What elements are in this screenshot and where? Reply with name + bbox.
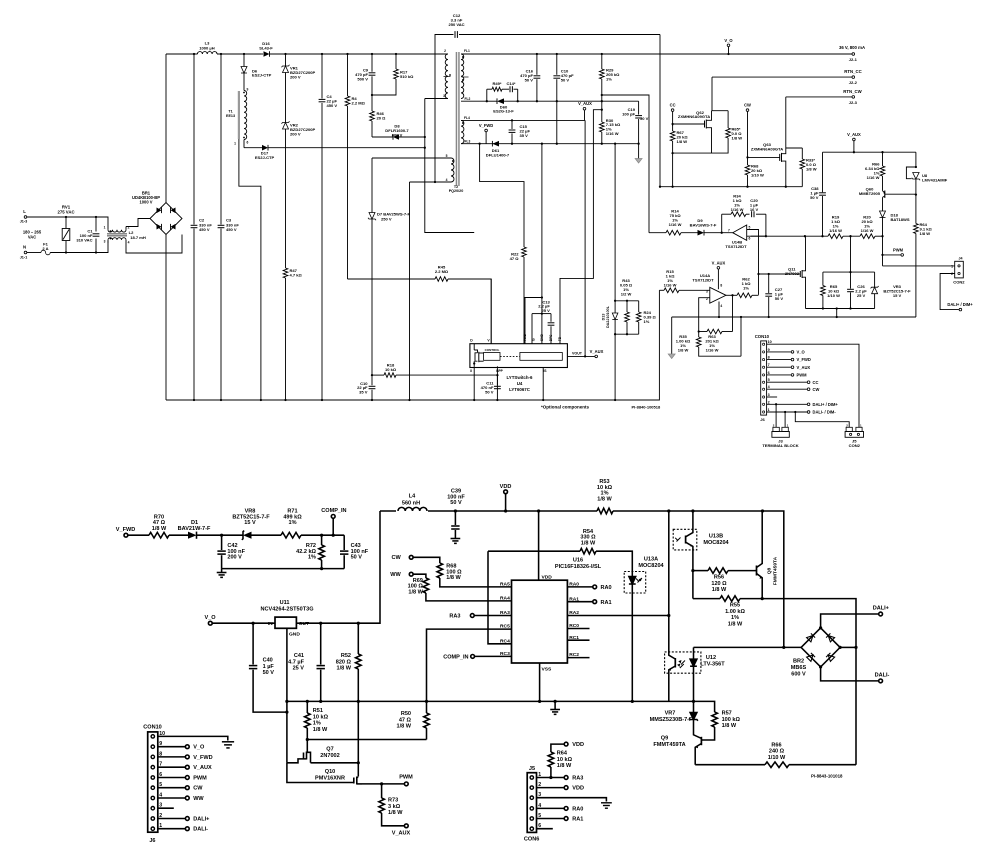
terminal WW input [390,572,426,578]
svg-text:U11: U11 [280,600,290,606]
svg-text:600 V: 600 V [392,132,403,137]
terminal N J1-1 [20,245,28,260]
svg-text:RA1: RA1 [572,817,583,823]
transistor Q9 FMMT459TA [653,735,703,764]
pin wires U4 top [524,298,526,344]
svg-text:RA3: RA3 [449,613,460,619]
svg-text:8: 8 [720,283,722,287]
svg-text:R56: R56 [714,575,724,581]
svg-text:DALI+: DALI+ [193,817,210,823]
svg-text:DALI-: DALI- [875,672,890,678]
junction dots FL3 line [478,143,639,145]
common-mode choke L2 [104,225,146,244]
terminal RA3 input [449,613,511,619]
svg-text:LYT6067C: LYT6067C [509,387,531,392]
wire U13B collector [692,511,694,529]
svg-text:FMMT459TA: FMMT459TA [653,742,685,748]
wire sense network to bus [614,334,616,400]
capacitor C10 470pF [553,54,574,101]
svg-text:1/16 W: 1/16 W [669,222,682,227]
zener VR7 MMSZ5230B-7-F [650,701,701,738]
junction dot Q8 collector [761,509,764,512]
svg-text:1/16 W: 1/16 W [867,175,880,180]
svg-text:CON10: CON10 [755,334,770,339]
capacitor C26 [847,236,867,308]
svg-text:1000 V: 1000 V [140,200,153,205]
terminal V_AUX J6 [158,765,212,771]
svg-text:RA1: RA1 [601,600,612,606]
svg-text:RA0: RA0 [572,807,583,813]
wire R55 line [693,598,720,600]
svg-text:R52: R52 [341,653,351,659]
svg-text:35 V: 35 V [359,390,368,395]
resistor R56 [693,568,755,593]
svg-text:CW: CW [193,786,203,792]
svg-text:450 V: 450 V [199,227,210,232]
junction dots return line [659,186,787,188]
svg-text:V_FWD: V_FWD [479,123,493,128]
svg-text:3: 3 [706,289,708,293]
wire DALI- to terminal block [784,412,786,427]
svg-text:CON10: CON10 [143,724,162,730]
svg-text:V_O: V_O [724,38,733,43]
svg-text:J6: J6 [149,838,155,844]
svg-text:MMSZ5230B-7-F: MMSZ5230B-7-F [650,717,693,723]
svg-text:510 kΩ: 510 kΩ [400,74,414,79]
capacitor C10 bulk 22uF [357,375,375,400]
svg-text:1/8 W: 1/8 W [313,727,328,733]
svg-text:1/16 W: 1/16 W [606,131,619,136]
svg-text:25 V: 25 V [541,308,550,313]
resistor R19 [828,214,860,238]
svg-text:1/16 W: 1/16 W [731,207,744,212]
svg-text:PI-8843-101018: PI-8843-101018 [811,773,843,778]
svg-text:V_AUX: V_AUX [797,365,811,370]
resistor R64 10k [548,751,572,780]
terminal V_FWD [479,123,493,144]
svg-text:1/8 W: 1/8 W [728,622,743,628]
diode D16 SL43-F [259,41,448,57]
junction dots input [65,216,97,254]
wire bridge right to R55 net [840,646,856,648]
svg-text:BAV16WS-7-F: BAV16WS-7-F [690,223,717,228]
svg-text:CW: CW [391,555,401,561]
junction dot C15 top [511,119,513,121]
svg-text:275 VAC: 275 VAC [57,209,74,214]
svg-text:50 V: 50 V [450,500,462,506]
svg-text:FL2: FL2 [465,97,471,101]
terminal PWM J6 [158,776,207,782]
svg-text:J1-1: J1-1 [20,255,28,259]
svg-text:4: 4 [446,178,448,182]
svg-text:R66: R66 [771,742,781,748]
junction dots bottom rail [306,700,695,703]
wire V_FWD node to R22 [480,144,524,247]
svg-text:FMMT459TA: FMMT459TA [773,556,779,585]
svg-text:1%: 1% [313,721,321,727]
svg-text:25 V: 25 V [293,666,305,672]
capacitor C13 [538,299,554,343]
terminal RA1 J5 [537,817,584,823]
svg-text:1%: 1% [606,77,612,82]
wire R65b C26 VR3 rails [806,308,875,310]
svg-text:47 Ω: 47 Ω [399,717,412,723]
svg-text:PWM: PWM [399,775,413,781]
junction dot bridge [854,646,857,649]
svg-text:V_FWD: V_FWD [116,527,135,533]
svg-text:16 V: 16 V [750,207,759,212]
wire HV bus left [166,53,198,55]
svg-text:IS: IS [532,338,536,341]
svg-text:V_AUX: V_AUX [392,830,411,836]
svg-text:R55: R55 [730,603,740,609]
wire R22 stub [524,297,542,299]
svg-text:1/8 W: 1/8 W [408,589,423,595]
svg-text:8: 8 [768,356,770,360]
svg-text:V_AUX: V_AUX [590,349,604,354]
wire Q11 gate line [759,273,801,275]
resistor R54 [488,529,632,577]
svg-text:36 V, 800 mA: 36 V, 800 mA [839,45,865,50]
svg-text:820 Ω: 820 Ω [336,659,352,665]
resistor R51 [305,701,329,741]
svg-text:CW: CW [744,103,751,108]
svg-text:50 V: 50 V [775,296,784,301]
svg-text:RC3: RC3 [500,651,510,657]
svg-text:2.2 MΩ: 2.2 MΩ [435,269,449,274]
svg-text:CW: CW [813,387,820,392]
connector J6 CON10 bottom [143,724,165,844]
junction dot U13B collector [691,509,694,512]
svg-text:C41: C41 [294,653,304,659]
wire BR1 minus to bottom bus [165,235,167,401]
zener VR2 BZD27C200P [282,121,316,268]
svg-text:VDD: VDD [542,574,553,580]
svg-text:RC4: RC4 [500,638,510,644]
svg-text:1/8 W: 1/8 W [446,575,461,581]
svg-text:4.7 µF: 4.7 µF [288,659,304,665]
MOSFET Q7 2N7002 [287,747,340,763]
diode D60 ES2G-13-F [487,98,639,113]
transformer T1 EE13 bias winding [226,87,261,400]
junction dots gate line [757,273,770,275]
svg-text:1%: 1% [288,520,296,526]
resistor R64 9.1k [914,195,933,317]
wire R29 junction to R14 [602,95,649,233]
svg-text:CON2: CON2 [953,279,965,284]
svg-text:EE13: EE13 [226,114,235,118]
svg-text:VDD: VDD [572,786,584,792]
terminal V_O bottom [204,615,275,625]
connector J6 CON10 top [755,334,772,422]
terminal CC [670,103,676,126]
svg-text:7: 7 [728,228,730,232]
resistor R73 [379,784,411,836]
svg-text:RTN_CW: RTN_CW [843,89,862,94]
svg-text:10 kΩ: 10 kΩ [313,714,329,720]
svg-text:1/8 W: 1/8 W [806,166,817,171]
resistor R72 [296,534,324,569]
terminal block J3 [762,423,798,448]
current sense network rails [614,300,639,336]
wire R53 net [763,511,784,647]
svg-text:PI-8840-100518: PI-8840-100518 [632,404,661,409]
terminal V_FWD CON10 [767,357,811,362]
svg-text:10 kΩ: 10 kΩ [557,757,573,763]
capacitor C12 snubber [434,13,660,183]
svg-text:GND: GND [289,631,300,637]
terminal V_O J6 [158,745,205,751]
svg-text:BR2: BR2 [793,659,804,665]
svg-text:Q8: Q8 [767,567,773,574]
wire clamp to ground line [836,309,838,318]
MOSFET Q63 ZXMHN6A09GTA [746,142,785,187]
resistor R46 [370,95,386,137]
inductor L4 [396,494,428,516]
svg-text:25 V: 25 V [857,293,866,298]
resistor R45 [348,264,492,343]
svg-text:N: N [23,245,26,250]
MOSFET Q62 ZXMHN6A09GTA [671,110,711,153]
svg-text:1/8 W: 1/8 W [337,666,352,672]
svg-text:1000 µH: 1000 µH [199,45,214,50]
VOUT wire and terminal V_AUX [567,349,603,358]
svg-text:CC: CC [670,103,676,108]
IC U11 NCV4264-2ST50T3G [260,600,313,638]
terminal RA3 J5 [537,776,584,782]
resistor R50 [397,701,430,739]
svg-text:V_O: V_O [797,350,806,355]
svg-text:6: 6 [768,371,770,375]
diode D61 DFLU1400-7 [486,141,510,158]
terminal RTN_CC J2-2 [712,69,862,85]
terminal CW CON10 [767,387,820,392]
op-amp U14B TSX712IDT [725,225,765,295]
resistor R17 [371,54,414,96]
wire BR1 plus to HV bus [165,54,167,203]
svg-text:50 V: 50 V [525,77,534,82]
svg-text:9: 9 [247,87,249,91]
svg-text:50 V: 50 V [561,77,570,82]
svg-text:RTN_CC: RTN_CC [844,69,861,74]
wire DALI+ to terminal block [775,404,777,427]
junction dots R29 divider [601,94,603,111]
svg-text:ZXMHN6A09GTA: ZXMHN6A09GTA [678,114,710,119]
svg-text:ES2J-CTP: ES2J-CTP [252,73,272,78]
svg-text:3: 3 [104,240,106,244]
svg-text:U12: U12 [706,655,716,661]
svg-text:PQ20/20: PQ20/20 [449,189,464,193]
resistor R29 [600,54,621,122]
junction dot RA2 pullup [667,509,670,512]
capacitor C42 [217,534,245,569]
svg-text:R50: R50 [401,711,411,717]
svg-text:1/8 W: 1/8 W [722,723,737,729]
svg-text:D13: D13 [601,314,605,321]
connector J5 CON2 bottom [845,423,863,448]
svg-text:V_O: V_O [193,745,205,751]
svg-text:2: 2 [768,400,770,404]
svg-text:1: 1 [951,264,953,268]
resistor R71 [281,509,344,539]
svg-text:50 V: 50 V [263,670,275,676]
stub RC0 [567,628,589,630]
svg-text:RA5: RA5 [500,582,510,588]
wire R53 to RA2 pullup [668,511,670,616]
wire RTN_CC to Q62 drain [711,77,713,111]
svg-text:WW: WW [193,796,204,802]
svg-text:250 VAC: 250 VAC [448,22,464,27]
svg-text:VOUT: VOUT [572,352,583,356]
svg-text:MOC8204: MOC8204 [703,540,729,546]
svg-text:DFLU1400-7: DFLU1400-7 [486,153,510,158]
svg-text:1/8 W: 1/8 W [678,348,689,353]
svg-text:1%: 1% [308,555,316,561]
transformer T2 core [456,52,460,186]
capacitor C40 [249,622,287,712]
svg-text:35 V: 35 V [520,133,529,138]
svg-text:1/8 W: 1/8 W [152,526,167,532]
terminal V_FWD J6 [158,755,213,761]
terminal DALI+ right [821,606,890,628]
svg-text:450 V: 450 V [327,103,338,108]
svg-text:47 Ω: 47 Ω [510,256,520,261]
resistor R66 6.34k [865,152,885,190]
svg-text:1/8 W: 1/8 W [597,496,612,502]
wire U11 gnd [286,628,288,763]
svg-text:1/8 W: 1/8 W [397,724,412,730]
wire L line top [27,217,108,227]
terminal PWM bottom [380,775,413,786]
svg-text:1/2 W: 1/2 W [621,291,632,296]
feedback R34 and C20 [722,193,767,237]
junction dots control line [804,235,824,237]
capacitor C15 [509,120,531,143]
svg-text:200 V: 200 V [290,74,301,79]
wire bottom bus [166,290,659,400]
svg-text:1/8 W: 1/8 W [388,810,403,816]
transistor Q60 MMBT2905 PNP [859,186,916,211]
op-amp U14A TSX712IDT [692,273,726,308]
svg-text:RA0: RA0 [601,585,612,591]
terminal RA0 out [567,585,611,591]
resistor R66 240 [695,742,856,767]
bridge rectifier BR1 UD4KB100-BP [132,190,182,234]
junction dot GND line [541,296,543,298]
svg-text:1: 1 [104,225,106,229]
svg-text:LMV431AIMF: LMV431AIMF [922,177,948,182]
diode D17 ES2J-CTP [244,145,426,160]
svg-text:3: 3 [768,393,770,397]
svg-text:5: 5 [749,226,751,230]
transistor Q8 FMMT459TA [755,511,779,599]
svg-text:1/8 W: 1/8 W [712,587,727,593]
diode D8 DFLR1600-7 [372,124,426,140]
svg-text:240 Ω: 240 Ω [769,749,785,755]
svg-text:V_AUX: V_AUX [193,765,212,771]
wire R35 ground return [740,317,742,356]
svg-text:U13B: U13B [709,534,723,540]
svg-text:ES2J-CTP: ES2J-CTP [255,155,275,160]
wire L2 to BR1 ac2 [126,235,182,254]
svg-text:1/8 W: 1/8 W [557,763,572,769]
junction dots clamp rails [822,271,852,310]
wire output rail 36V [461,53,853,55]
svg-text:3: 3 [443,94,445,98]
svg-text:1/16 W: 1/16 W [664,282,677,287]
svg-text:1%: 1% [644,319,650,324]
svg-text:J2-1: J2-1 [849,57,858,62]
wire R54 to RC4 [488,551,512,644]
svg-text:1%: 1% [743,286,749,291]
wire U12 LED anode to bridge [694,646,802,648]
resistor R15 [664,269,710,293]
terminal CW [744,103,751,165]
resistor R47 [283,268,302,400]
terminal V_AUX CON10 [767,365,811,370]
svg-text:2: 2 [444,49,446,53]
diode D1 BAV21W-7-F [178,520,243,539]
resistor R70 [149,514,188,538]
terminal PWM [881,236,903,266]
svg-text:2: 2 [128,225,130,229]
svg-text:U13A: U13A [644,556,658,562]
svg-text:BAT18WS: BAT18WS [891,217,910,222]
terminal DALI+ J6 [158,817,210,823]
wire R54 net to RC5 [427,629,512,701]
svg-text:500 V: 500 V [357,76,368,81]
transformer T2 aux winding [372,154,463,193]
terminal V_AUX right [847,132,861,153]
junction dot R53 net [782,646,785,649]
svg-text:CC: CC [813,380,819,385]
svg-text:PWM: PWM [893,247,904,252]
svg-text:U4: U4 [517,381,523,386]
fuse F1 [27,241,108,255]
resistor R4 [345,54,365,279]
diode D13 DA2J10100L [601,301,618,334]
svg-text:1/8 W: 1/8 W [920,231,931,236]
resistor R52 [336,622,361,763]
svg-text:CON6: CON6 [524,837,539,843]
svg-text:450 V: 450 V [226,227,237,232]
junction dots HV bus [193,53,397,55]
svg-text:1/10 W: 1/10 W [768,755,786,761]
svg-text:TERMINAL BLOCK: TERMINAL BLOCK [762,443,798,448]
wire CC control line [751,235,766,237]
svg-text:200 V: 200 V [227,555,242,561]
wire control return line [659,186,802,188]
svg-text:V_FWD: V_FWD [193,755,212,761]
resistor R53 [597,479,613,514]
svg-text:6: 6 [749,236,751,240]
svg-text:2N7002: 2N7002 [320,753,339,759]
terminal V_O CON10 [767,350,806,355]
capacitor C9 [355,54,375,95]
capacitor C27 [765,274,783,318]
capacitor C38 [810,152,826,236]
svg-text:250 V: 250 V [381,216,392,221]
svg-text:J1-3: J1-3 [20,220,28,224]
terminal DALI+ DIM+ CON10 [767,402,839,407]
svg-text:Q7: Q7 [326,747,333,753]
terminal J2-1 36V [839,45,865,62]
transformer T2 secondary FL1 FL2 [461,49,471,101]
pin wires U4 bottom [473,366,475,400]
svg-text:DALI- / DIM-: DALI- / DIM- [813,410,837,415]
svg-text:18.7 mH: 18.7 mH [130,235,146,240]
wire VDD to U16 [537,509,540,580]
